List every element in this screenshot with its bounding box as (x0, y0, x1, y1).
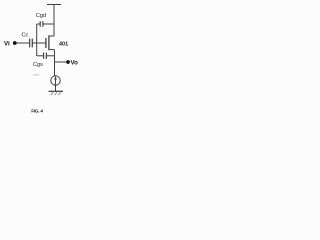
svg-text:Cc: Cc (22, 33, 29, 39)
svg-text:Cgd: Cgd (36, 13, 46, 19)
svg-text:Vi: Vi (4, 41, 10, 48)
svg-text:FIG. 4: FIG. 4 (31, 109, 43, 114)
svg-text:Vo: Vo (71, 60, 79, 67)
svg-text:401: 401 (59, 41, 68, 47)
svg-text:Cgs: Cgs (33, 62, 43, 68)
